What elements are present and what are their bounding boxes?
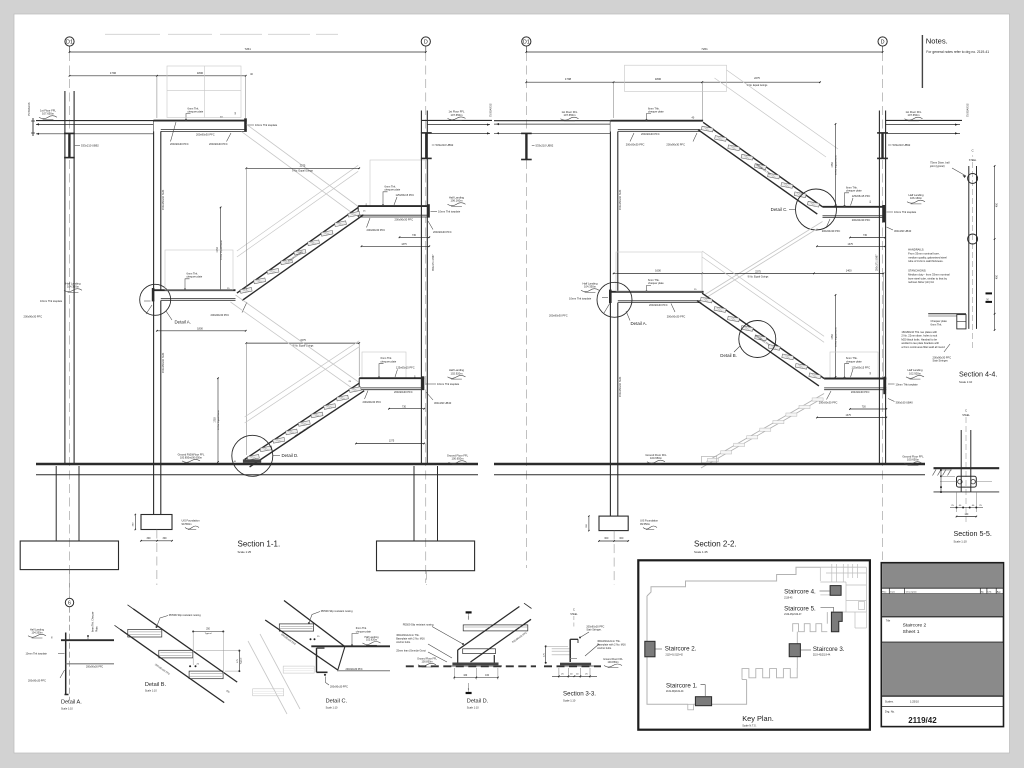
svg-text:200x90x30 PFC: 200x90x30 PFC bbox=[363, 400, 382, 404]
svg-text:Detail D.: Detail D. bbox=[467, 699, 489, 705]
svg-text:150x150x10 SHS: 150x150x10 SHS bbox=[161, 353, 165, 373]
svg-text:Scale 1:25: Scale 1:25 bbox=[238, 550, 252, 554]
svg-text:For general notes refer to drg: For general notes refer to drg no. 2119-… bbox=[926, 50, 989, 54]
svg-text:medium quality, galvanised ste: medium quality, galvanised steel bbox=[908, 255, 947, 259]
svg-text:300x160 UB40: 300x160 UB40 bbox=[896, 400, 914, 404]
svg-text:D1: D1 bbox=[66, 40, 73, 46]
svg-text:160x80x10 Thk. tee plates with: 160x80x10 Thk. tee plates with bbox=[901, 330, 937, 334]
svg-text:300: 300 bbox=[604, 537, 609, 540]
svg-text:200x90x30 PFC: 200x90x30 PFC bbox=[367, 228, 386, 232]
svg-text:450: 450 bbox=[996, 274, 999, 279]
svg-text:1750: 1750 bbox=[831, 334, 834, 340]
svg-text:Staircore 3.: Staircore 3. bbox=[813, 646, 845, 653]
svg-text:2275: 2275 bbox=[755, 269, 761, 273]
svg-text:450: 450 bbox=[996, 202, 999, 207]
svg-text:2119-41-2119-42: 2119-41-2119-42 bbox=[666, 654, 684, 656]
svg-text:730: 730 bbox=[412, 234, 417, 237]
svg-text:Scale 1:10: Scale 1:10 bbox=[61, 708, 73, 711]
svg-text:Plate.: Plate. bbox=[95, 626, 98, 632]
svg-text:chequer plate: chequer plate bbox=[381, 359, 397, 363]
svg-text:2119/42: 2119/42 bbox=[908, 716, 937, 725]
svg-text:10 No. Equal Risers: 10 No. Equal Risers bbox=[835, 326, 838, 346]
svg-text:10 No. Equal Risers: 10 No. Equal Risers bbox=[220, 239, 223, 259]
svg-text:PD509 Slip resistant nosing: PD509 Slip resistant nosing bbox=[169, 613, 201, 617]
svg-text:Scales.: Scales. bbox=[885, 700, 894, 704]
svg-text:100.850m: 100.850m bbox=[607, 661, 618, 664]
svg-text:Detail A.: Detail A. bbox=[631, 321, 647, 326]
svg-text:350x171 UB67: 350x171 UB67 bbox=[876, 254, 879, 271]
svg-text:chequer plate: chequer plate bbox=[188, 110, 204, 114]
svg-text:200x90x30 PFC: 200x90x30 PFC bbox=[24, 315, 43, 319]
svg-text:D: D bbox=[424, 40, 428, 46]
svg-text:10mm Thk toeplate: 10mm Thk toeplate bbox=[437, 382, 460, 386]
svg-text:Detail C.: Detail C. bbox=[771, 207, 788, 212]
svg-text:730: 730 bbox=[402, 405, 407, 408]
svg-text:7261: 7261 bbox=[701, 47, 708, 51]
svg-text:1800: 1800 bbox=[197, 71, 204, 75]
svg-text:Scale 1:10: Scale 1:10 bbox=[145, 690, 157, 693]
svg-text:Detail C.: Detail C. bbox=[326, 699, 348, 705]
svg-text:200x90x30 PFC: 200x90x30 PFC bbox=[433, 230, 452, 234]
svg-text:Detail A.: Detail A. bbox=[175, 320, 191, 325]
svg-text:7261: 7261 bbox=[244, 47, 251, 51]
svg-text:6mm Thk. Chequer: 6mm Thk. Chequer bbox=[92, 611, 95, 632]
svg-text:chequer plate: chequer plate bbox=[846, 359, 862, 363]
svg-text:10mm Thk toeplate: 10mm Thk toeplate bbox=[894, 210, 917, 214]
svg-text:Scale 1:10: Scale 1:10 bbox=[954, 539, 968, 543]
svg-text:2275: 2275 bbox=[754, 76, 760, 80]
svg-text:75 BOARDS: 75 BOARDS bbox=[490, 103, 493, 117]
svg-text:C: C bbox=[965, 409, 967, 413]
svg-text:10mm Thk toeplate: 10mm Thk toeplate bbox=[896, 382, 919, 386]
svg-text:Detail A.: Detail A. bbox=[61, 700, 82, 706]
svg-text:M20 black bolts. Handrail to b: M20 black bolts. Handrail to be bbox=[901, 337, 937, 341]
svg-text:Rev.: Rev. bbox=[882, 591, 887, 593]
svg-text:200x90x30 PFC: 200x90x30 PFC bbox=[395, 217, 414, 221]
svg-text:1750: 1750 bbox=[216, 247, 219, 253]
svg-text:joint (typical): joint (typical) bbox=[929, 164, 945, 168]
svg-text:10 No. Equal Risers: 10 No. Equal Risers bbox=[217, 409, 220, 429]
svg-text:533x210 UB92: 533x210 UB92 bbox=[436, 143, 454, 147]
svg-text:75 BOARDS: 75 BOARDS bbox=[28, 102, 31, 116]
svg-text:150x150x10 SHS: 150x150x10 SHS bbox=[618, 377, 622, 397]
svg-text:1:25/10: 1:25/10 bbox=[910, 700, 919, 704]
svg-text:730: 730 bbox=[863, 234, 868, 237]
svg-text:Staircore 4.: Staircore 4. bbox=[784, 589, 816, 596]
svg-text:Staircore 1.: Staircore 1. bbox=[666, 682, 698, 689]
svg-text:104.350m: 104.350m bbox=[31, 631, 42, 634]
svg-text:Scale 1:10: Scale 1:10 bbox=[563, 699, 576, 703]
svg-text:200x90x30 PFC: 200x90x30 PFC bbox=[852, 218, 871, 222]
svg-text:chequer plate: chequer plate bbox=[846, 189, 862, 193]
svg-text:10mm Thk toeplate: 10mm Thk toeplate bbox=[255, 123, 278, 127]
svg-text:2119-39(2119-40.: 2119-39(2119-40. bbox=[666, 691, 684, 693]
svg-text:25mm lean (Smm)te Grout: 25mm lean (Smm)te Grout bbox=[396, 649, 426, 652]
svg-text:Scale 1:10: Scale 1:10 bbox=[959, 380, 973, 384]
svg-text:106.160m: 106.160m bbox=[910, 196, 923, 200]
svg-text:104.350m: 104.350m bbox=[67, 285, 80, 289]
svg-text:Description: Description bbox=[906, 590, 918, 593]
svg-text:1400: 1400 bbox=[846, 268, 852, 272]
svg-text:200x90x30 PFC: 200x90x30 PFC bbox=[641, 132, 660, 136]
svg-text:300: 300 bbox=[163, 537, 168, 540]
svg-text:102.920m: 102.920m bbox=[451, 371, 464, 375]
svg-text:150x150x10 SHS: 150x150x10 SHS bbox=[618, 190, 622, 210]
svg-text:200x90x30 PFC: 200x90x30 PFC bbox=[851, 390, 870, 394]
svg-text:2 No. 22mm diam. holes to suit: 2 No. 22mm diam. holes to suit bbox=[901, 334, 937, 338]
svg-text:chequer plate: chequer plate bbox=[648, 281, 664, 285]
svg-text:1798: 1798 bbox=[565, 77, 572, 81]
svg-text:102.920m: 102.920m bbox=[909, 371, 922, 375]
svg-text:HANDRAILS:: HANDRAILS: bbox=[908, 248, 924, 252]
svg-text:200x90x30 PFC: 200x90x30 PFC bbox=[330, 685, 348, 688]
svg-text:200x90x30 PFC: 200x90x30 PFC bbox=[549, 314, 568, 318]
svg-text:2275: 2275 bbox=[300, 163, 306, 167]
svg-text:200x90x30 PFC: 200x90x30 PFC bbox=[86, 665, 103, 668]
svg-text:1375: 1375 bbox=[848, 243, 854, 246]
svg-text:200x90x30 PFC: 200x90x30 PFC bbox=[346, 668, 363, 671]
svg-text:tube of 3.2mm wall thickness.: tube of 3.2mm wall thickness. bbox=[908, 259, 944, 263]
svg-text:1375: 1375 bbox=[401, 243, 407, 246]
svg-text:Section 1-1.: Section 1-1. bbox=[238, 540, 281, 549]
svg-text:533x210 UB92: 533x210 UB92 bbox=[893, 143, 911, 147]
svg-text:Typical: Typical bbox=[241, 657, 243, 664]
svg-text:STEEL: STEEL bbox=[969, 159, 977, 162]
svg-text:Detail B.: Detail B. bbox=[720, 353, 737, 358]
svg-text:Section 2-2.: Section 2-2. bbox=[694, 540, 737, 549]
svg-text:1796: 1796 bbox=[110, 71, 117, 75]
svg-text:200x90x30 PFC: 200x90x30 PFC bbox=[209, 142, 228, 146]
svg-text:Medium duty - from 33mm nomina: Medium duty - from 33mm nominal bbox=[908, 272, 950, 276]
svg-text:STEEL: STEEL bbox=[570, 614, 578, 616]
svg-text:chequer plate: chequer plate bbox=[356, 630, 372, 633]
svg-text:Drg. No.: Drg. No. bbox=[885, 710, 895, 714]
svg-text:redman fisher (sh) ltd.: redman fisher (sh) ltd. bbox=[908, 280, 934, 284]
svg-text:100.850m(00.650m: 100.850m(00.650m bbox=[180, 455, 202, 459]
svg-text:Anchor bolts.: Anchor bolts. bbox=[597, 647, 612, 650]
svg-text:Scale 1:10: Scale 1:10 bbox=[326, 707, 338, 710]
svg-text:10mm Thk toeplate: 10mm Thk toeplate bbox=[26, 653, 48, 656]
svg-text:350x171 UB67: 350x171 UB67 bbox=[432, 254, 435, 271]
svg-text:From 33mm nominal bore,: From 33mm nominal bore, bbox=[908, 251, 940, 255]
svg-text:Key Plan.: Key Plan. bbox=[742, 714, 774, 723]
svg-text:107.650m: 107.650m bbox=[564, 113, 577, 117]
svg-text:6: 6 bbox=[68, 601, 71, 607]
svg-text:Notes.: Notes. bbox=[926, 37, 948, 46]
svg-text:99.550m: 99.550m bbox=[182, 522, 192, 526]
svg-text:200x90x30 PFC: 200x90x30 PFC bbox=[196, 132, 215, 136]
svg-text:150x150x10 SHS: 150x150x10 SHS bbox=[161, 190, 165, 210]
svg-text:a 6mm continuous fillet weld a: a 6mm continuous fillet weld all round bbox=[901, 345, 945, 349]
svg-text:107.650m: 107.650m bbox=[42, 112, 55, 116]
svg-text:200x90x30 PFC: 200x90x30 PFC bbox=[170, 142, 189, 146]
svg-text:Section 5-5.: Section 5-5. bbox=[954, 529, 992, 538]
svg-text:100.650m: 100.650m bbox=[650, 456, 663, 460]
svg-text:533x210 UB92: 533x210 UB92 bbox=[536, 144, 554, 148]
svg-text:bore steel tube, similar to th: bore steel tube, similar to that by bbox=[908, 276, 947, 280]
svg-text:533x210 UB92: 533x210 UB92 bbox=[81, 144, 99, 148]
svg-text:106.160m: 106.160m bbox=[451, 199, 464, 203]
svg-text:107.650m: 107.650m bbox=[908, 113, 921, 117]
svg-text:100.650m: 100.650m bbox=[452, 457, 465, 461]
svg-text:200x90x30 PFC: 200x90x30 PFC bbox=[667, 315, 686, 319]
svg-text:75 BOARDS: 75 BOARDS bbox=[967, 103, 970, 117]
svg-text:10mm Thk toeplate: 10mm Thk toeplate bbox=[40, 299, 63, 303]
svg-text:125x65x15 PFC: 125x65x15 PFC bbox=[852, 365, 871, 369]
svg-text:Staircore 5.: Staircore 5. bbox=[784, 605, 816, 612]
svg-text:Date: Date bbox=[890, 590, 895, 593]
svg-text:300x160 UB40: 300x160 UB40 bbox=[434, 401, 452, 405]
svg-text:chequer plate: chequer plate bbox=[187, 275, 203, 279]
svg-text:welded to tee plate brackets w: welded to tee plate brackets with bbox=[901, 341, 939, 345]
svg-text:1375: 1375 bbox=[846, 414, 852, 417]
svg-text:1375: 1375 bbox=[389, 440, 395, 443]
svg-text:99.550m: 99.550m bbox=[640, 522, 650, 526]
svg-text:Section 3-3.: Section 3-3. bbox=[563, 691, 596, 698]
svg-text:200x90x30 PFC: 200x90x30 PFC bbox=[666, 142, 685, 146]
svg-text:125x65x15 PFC: 125x65x15 PFC bbox=[396, 366, 415, 370]
svg-text:Title: Title bbox=[886, 619, 891, 622]
svg-text:10mm Thk toeplate: 10mm Thk toeplate bbox=[569, 296, 592, 300]
svg-text:Section 4-4.: Section 4-4. bbox=[959, 370, 997, 379]
svg-text:100.850m: 100.850m bbox=[421, 660, 432, 663]
svg-text:STANCHIONS:: STANCHIONS: bbox=[908, 269, 926, 273]
svg-text:1800: 1800 bbox=[197, 326, 203, 330]
svg-text:1750: 1750 bbox=[214, 417, 217, 423]
svg-text:Stair Stringer.: Stair Stringer. bbox=[586, 628, 601, 631]
svg-text:10 No. Equal Risers: 10 No. Equal Risers bbox=[835, 154, 838, 174]
svg-text:C: C bbox=[573, 608, 575, 612]
svg-text:200x90x30 PFC: 200x90x30 PFC bbox=[649, 303, 668, 307]
svg-text:200x90x30 PFC: 200x90x30 PFC bbox=[211, 313, 230, 317]
svg-text:6mm Thk.: 6mm Thk. bbox=[931, 322, 943, 326]
svg-text:PD509 Slip resistant nosing.: PD509 Slip resistant nosing. bbox=[403, 623, 435, 626]
svg-text:2119-46(2119-47.: 2119-46(2119-47. bbox=[784, 614, 802, 616]
svg-text:104.350m: 104.350m bbox=[584, 285, 597, 289]
svg-text:PD509 Slip resistant nosing: PD509 Slip resistant nosing bbox=[321, 609, 353, 613]
svg-text:200x90x30 PFC: 200x90x30 PFC bbox=[28, 679, 46, 682]
svg-text:9 No. Equal Goings: 9 No. Equal Goings bbox=[293, 344, 315, 347]
svg-text:300: 300 bbox=[619, 537, 624, 540]
svg-text:2119-43(2119-44.: 2119-43(2119-44. bbox=[813, 655, 831, 657]
svg-text:1600: 1600 bbox=[655, 268, 661, 272]
svg-text:Typical: Typical bbox=[205, 633, 212, 635]
svg-text:Stair Stringer.: Stair Stringer. bbox=[933, 359, 949, 363]
svg-text:125x65x15 PFC: 125x65x15 PFC bbox=[396, 193, 415, 197]
svg-text:Detail B.: Detail B. bbox=[145, 682, 167, 688]
svg-text:107.650m: 107.650m bbox=[451, 113, 464, 117]
svg-text:Staircore 2: Staircore 2 bbox=[903, 623, 927, 629]
svg-text:Detail D.: Detail D. bbox=[282, 453, 299, 458]
svg-text:300: 300 bbox=[147, 537, 152, 540]
svg-text:Scale 1:10: Scale 1:10 bbox=[467, 707, 479, 710]
svg-text:1750: 1750 bbox=[831, 162, 834, 168]
svg-text:300x160 UB40: 300x160 UB40 bbox=[894, 229, 912, 233]
svg-text:9 No. Equal Goings: 9 No. Equal Goings bbox=[748, 276, 770, 279]
svg-text:125x65x15 PFC: 125x65x15 PFC bbox=[852, 194, 871, 198]
svg-text:10mm Thk toeplate: 10mm Thk toeplate bbox=[438, 210, 461, 214]
svg-text:200x90x30 PFC: 200x90x30 PFC bbox=[626, 142, 645, 146]
svg-text:100.650m: 100.650m bbox=[907, 458, 920, 462]
svg-text:730: 730 bbox=[862, 406, 867, 409]
svg-text:D1: D1 bbox=[523, 40, 530, 46]
svg-text:9 No. Equal Goings: 9 No. Equal Goings bbox=[292, 170, 314, 173]
svg-text:Anchor bolts.: Anchor bolts. bbox=[396, 641, 411, 644]
svg-text:200x90x30 PFC: 200x90x30 PFC bbox=[394, 390, 413, 394]
svg-text:Scale 1:25: Scale 1:25 bbox=[694, 550, 708, 554]
svg-text:chequer plate: chequer plate bbox=[648, 110, 664, 114]
svg-text:200x90x30 PFC: 200x90x30 PFC bbox=[822, 229, 841, 233]
svg-text:chequer plate: chequer plate bbox=[385, 188, 401, 192]
svg-text:STEEL: STEEL bbox=[962, 414, 970, 417]
svg-text:D: D bbox=[881, 40, 885, 46]
svg-text:2119-45: 2119-45 bbox=[784, 597, 793, 599]
svg-text:1800: 1800 bbox=[655, 77, 662, 81]
svg-text:Scale N.T.S.: Scale N.T.S. bbox=[742, 724, 757, 728]
svg-text:Sheet 1: Sheet 1 bbox=[903, 629, 920, 635]
svg-text:Staircore 2.: Staircore 2. bbox=[665, 646, 697, 653]
